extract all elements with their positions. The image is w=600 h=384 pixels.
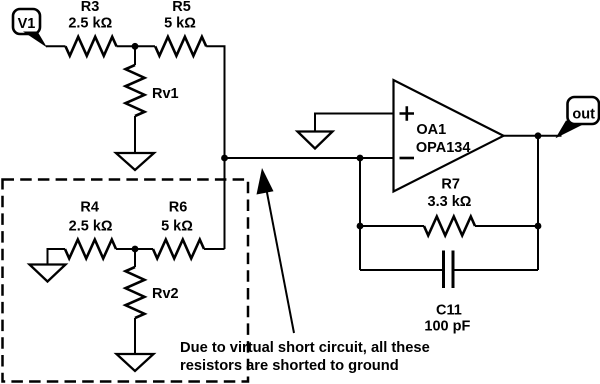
- resistor Rv2: [126, 267, 145, 318]
- svg-text:Rv1: Rv1: [152, 86, 179, 102]
- node summing junction: [221, 155, 228, 162]
- wire node B to Rv2: [134, 249, 136, 267]
- svg-text:out: out: [572, 106, 595, 122]
- wire node A to Rv1: [134, 46, 136, 65]
- wire R7 left: [360, 225, 424, 227]
- svg-text:2.5 kΩ: 2.5 kΩ: [68, 16, 112, 32]
- svg-text:C11: C11: [436, 303, 462, 319]
- wire R7 right: [475, 225, 538, 227]
- node R7 right junction: [535, 223, 542, 230]
- svg-text:resistors are shorted to groun: resistors are shorted to ground: [180, 358, 399, 374]
- svg-text:V1: V1: [18, 16, 36, 32]
- svg-text:5 kΩ: 5 kΩ: [161, 219, 193, 235]
- wire R5 to summing node: [206, 46, 224, 158]
- op-amp OA1 triangle: [394, 80, 504, 192]
- wire Rv2 to ground: [134, 318, 136, 354]
- resistor R3: [66, 37, 117, 56]
- annotation arrow: [257, 168, 295, 333]
- port V1: [13, 9, 47, 48]
- svg-text:R4: R4: [80, 200, 99, 216]
- port out: [556, 97, 600, 138]
- wire V1 to R3: [46, 45, 66, 47]
- op-amp plus pin mark: [400, 106, 415, 120]
- node feedback junction: [357, 155, 364, 162]
- ground below Rv1: [116, 153, 154, 170]
- node R7 left junction: [357, 223, 364, 230]
- svg-text:Rv2: Rv2: [152, 286, 179, 302]
- resistor R7: [424, 217, 475, 236]
- svg-text:2.5 kΩ: 2.5 kΩ: [69, 219, 113, 235]
- op-amp minus pin mark: [400, 157, 415, 160]
- wire summing node to R6: [224, 158, 226, 249]
- svg-text:5 kΩ: 5 kΩ: [164, 16, 196, 32]
- wire summing node to inverting input: [225, 157, 394, 159]
- wire R4 to node B: [116, 248, 153, 250]
- svg-text:3.3 kΩ: 3.3 kΩ: [428, 194, 472, 210]
- node A junction: [132, 43, 139, 50]
- wire op-amp output: [504, 135, 562, 137]
- svg-text:OPA134: OPA134: [416, 140, 471, 156]
- dashed enclosure box: [3, 180, 249, 382]
- wire feedback right vertical: [537, 136, 539, 270]
- svg-text:Due to virtual short circuit,: Due to virtual short circuit, all these: [180, 340, 430, 356]
- resistor R6: [153, 240, 204, 259]
- svg-text:R7: R7: [441, 177, 460, 193]
- wire noninverting input to ground: [315, 114, 394, 132]
- ground left of R4: [30, 265, 66, 282]
- resistor R5: [155, 37, 206, 56]
- svg-text:OA1: OA1: [416, 122, 446, 138]
- svg-text:R6: R6: [169, 200, 188, 216]
- wire ground to R4: [48, 249, 66, 265]
- node B junction: [132, 246, 139, 253]
- svg-text:R3: R3: [81, 0, 100, 15]
- resistor R4: [65, 240, 116, 259]
- ground below Rv2: [117, 354, 154, 371]
- ground at noninverting input: [298, 132, 333, 149]
- wire R3 to node A: [117, 45, 156, 47]
- wire C11 right: [453, 269, 538, 271]
- wire Rv1 to ground: [134, 116, 136, 153]
- capacitor C11: [444, 251, 454, 289]
- node output junction: [535, 132, 542, 139]
- wire feedback left vertical: [359, 158, 361, 270]
- resistor Rv1: [126, 65, 145, 116]
- svg-text:100 pF: 100 pF: [424, 319, 470, 335]
- wire R6 to vertical: [204, 248, 225, 250]
- svg-text:R5: R5: [172, 0, 191, 15]
- wire C11 left: [360, 269, 443, 271]
